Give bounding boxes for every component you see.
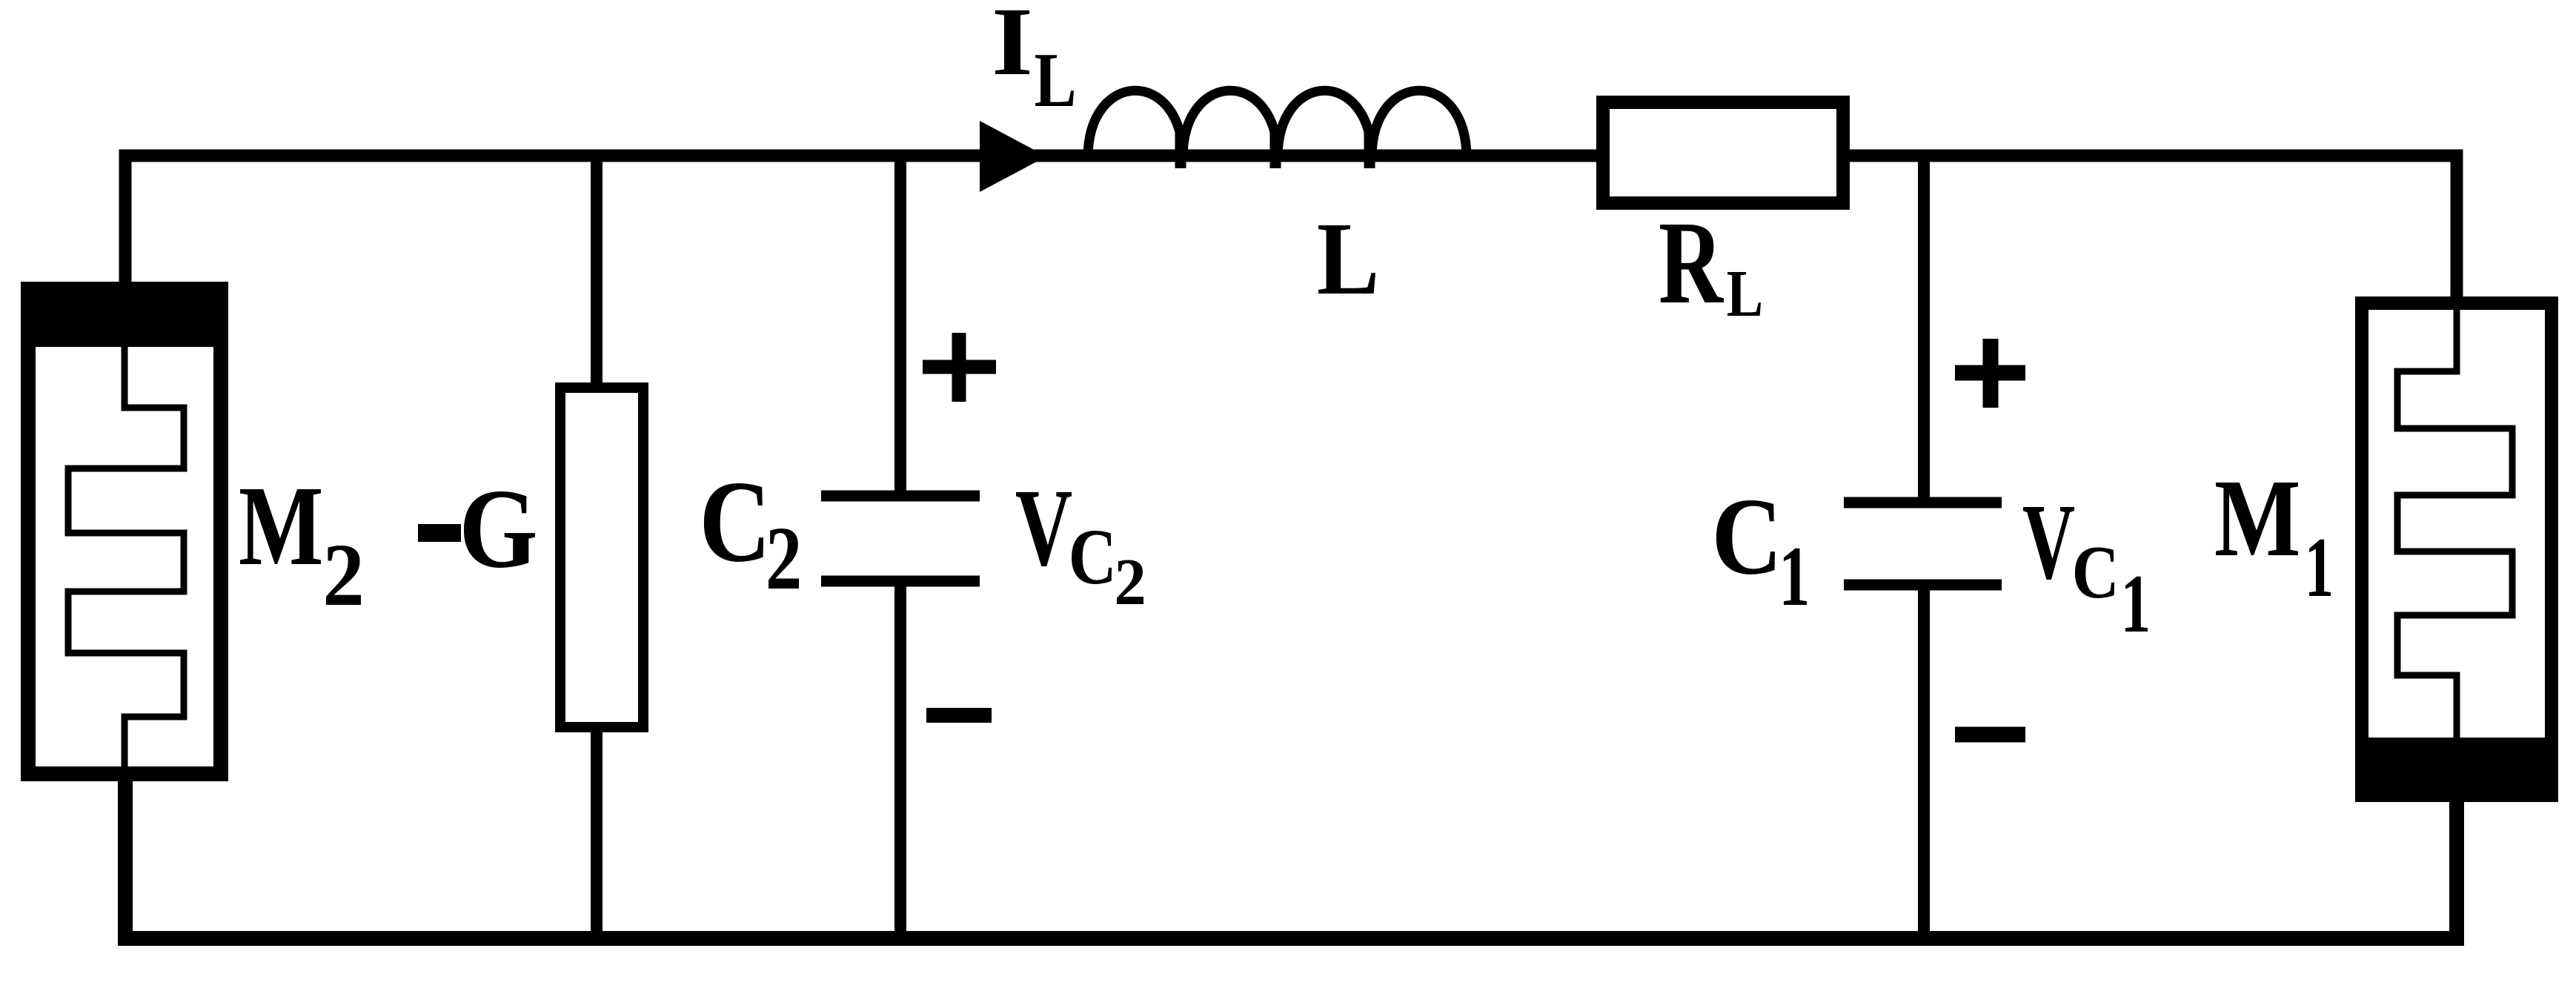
svg-text:2: 2: [1114, 545, 1146, 619]
svg-text:M: M: [239, 463, 324, 589]
capacitor C1 bottom lead wire: [1918, 589, 1930, 938]
capacitor C1 top lead wire: [1918, 150, 1930, 498]
negative conductance -G bottom lead wire: [591, 727, 602, 938]
svg-text:1: 1: [2121, 559, 2151, 651]
label M2: [239, 463, 365, 625]
memristor M2: [21, 282, 228, 774]
svg-text:M: M: [2214, 457, 2301, 580]
svg-text:V: V: [2022, 482, 2075, 602]
label RL: [1659, 197, 1763, 331]
svg-text:1: 1: [2305, 520, 2334, 614]
wire bottom rail: [125, 777, 2457, 938]
capacitor C2 top lead wire: [894, 150, 906, 491]
label M1: [2214, 457, 2334, 615]
svg-text:C: C: [699, 457, 771, 586]
svg-text:C: C: [1069, 514, 1117, 601]
svg-text:2: 2: [766, 508, 802, 609]
svg-text:1: 1: [1779, 529, 1810, 623]
svg-text:R: R: [1659, 197, 1724, 329]
wire top rail: [125, 156, 2457, 300]
label C1: [1712, 476, 1810, 623]
label IL: [992, 0, 1076, 123]
minus polarity mark VC2: [926, 708, 992, 723]
negative conductance -G box: [560, 388, 643, 727]
svg-text:L: L: [1035, 37, 1077, 123]
svg-text:2: 2: [322, 526, 365, 625]
label -G: [418, 465, 538, 592]
svg-text:C: C: [1712, 476, 1783, 597]
memristor M1: [2355, 300, 2558, 802]
resistor RL: [1603, 102, 1843, 203]
svg-text:I: I: [992, 0, 1033, 96]
negative conductance -G top lead wire: [591, 150, 602, 388]
plus polarity mark VC1: [1955, 339, 2025, 408]
svg-text:L: L: [1317, 201, 1380, 316]
inductor L coil: [1088, 90, 1467, 168]
current arrow IL: [980, 121, 1046, 192]
svg-text:G: G: [459, 465, 537, 592]
plus polarity mark VC2: [923, 333, 996, 402]
svg-text:C: C: [2072, 531, 2119, 614]
capacitor C1 plates: [1844, 503, 2002, 585]
svg-text:L: L: [1727, 256, 1763, 330]
label VC2: [1015, 467, 1146, 620]
label VC1: [2022, 482, 2151, 651]
capacitor C2 plates: [821, 496, 980, 581]
capacitor C2 bottom lead wire: [894, 586, 906, 938]
label C2: [699, 457, 802, 609]
minus polarity mark VC1: [1955, 727, 2025, 743]
svg-text:V: V: [1015, 467, 1072, 589]
